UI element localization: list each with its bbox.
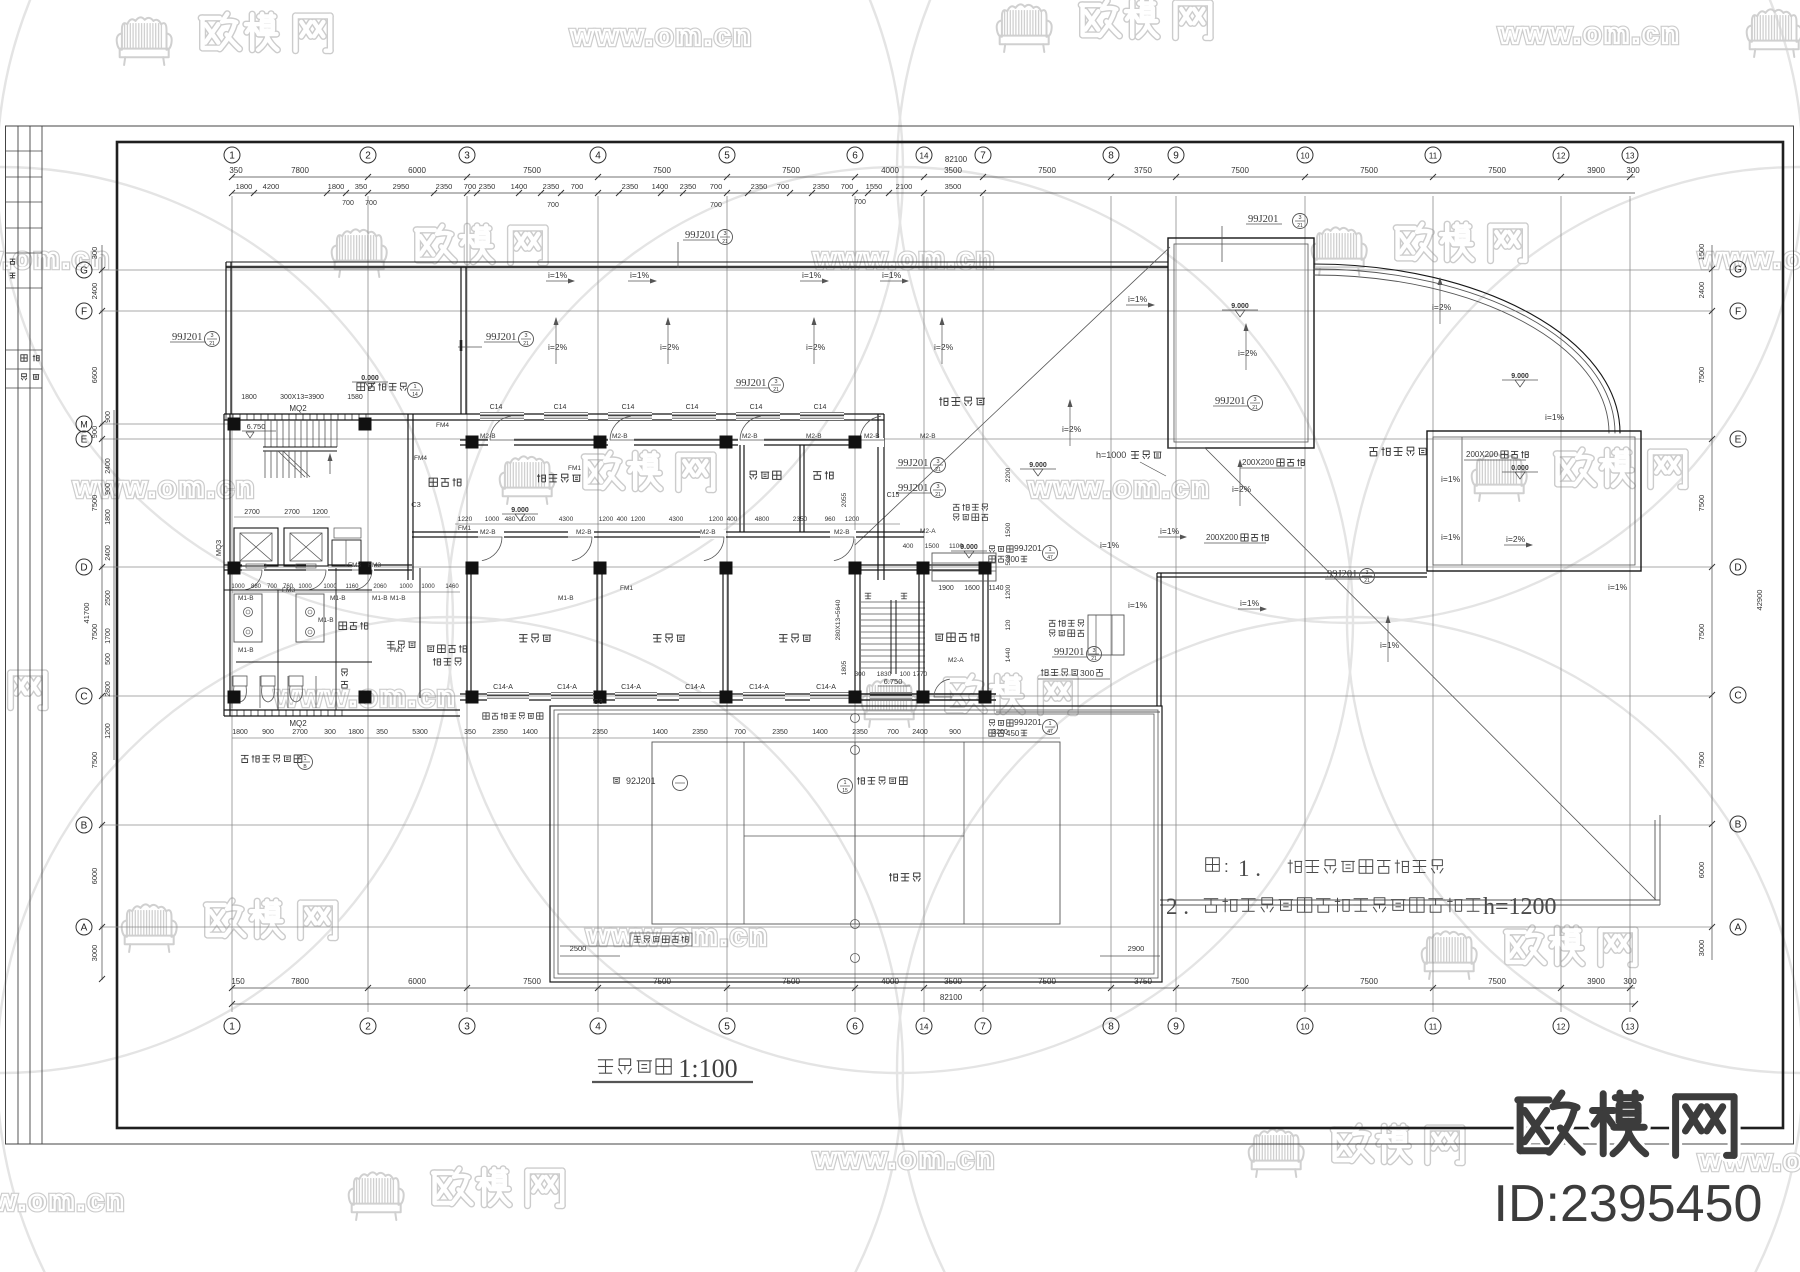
- making method labels 作法见99J201: [990, 546, 995, 549]
- svg-text:E: E: [81, 435, 88, 446]
- svg-text:7500: 7500: [523, 977, 541, 986]
- structural columns row C: [228, 691, 241, 704]
- watermark big circles: [0, 0, 903, 623]
- roof strip top edge: [226, 261, 1168, 263]
- svg-text:21: 21: [1091, 656, 1097, 662]
- brick beam label: [1041, 669, 1043, 676]
- svg-text:E: E: [1735, 435, 1742, 446]
- svg-text:21: 21: [1252, 405, 1258, 411]
- stair2 walls: [854, 565, 856, 700]
- svg-text:21: 21: [1364, 578, 1370, 584]
- svg-text:99J201: 99J201: [1215, 396, 1245, 407]
- svg-text:2350: 2350: [852, 729, 868, 736]
- svg-text:M1-B: M1-B: [318, 617, 334, 624]
- svg-text:9.000: 9.000: [1231, 303, 1249, 310]
- svg-text:1: 1: [1048, 721, 1051, 727]
- svg-text:FM1: FM1: [568, 465, 581, 472]
- svg-text:7500: 7500: [1697, 752, 1706, 769]
- svg-text:3000: 3000: [1697, 940, 1706, 957]
- svg-text:11: 11: [1429, 1023, 1438, 1032]
- svg-text:2350: 2350: [692, 729, 708, 736]
- svg-text:4200: 4200: [263, 182, 280, 191]
- svg-text:M1-B: M1-B: [372, 595, 388, 602]
- svg-text:2350: 2350: [543, 182, 560, 191]
- svg-text:280X13=5640: 280X13=5640: [835, 599, 842, 640]
- roof arc curtain: [1314, 264, 1620, 433]
- svg-text:2900: 2900: [1128, 944, 1145, 953]
- svg-text:9.000: 9.000: [511, 507, 529, 514]
- svg-text:7500: 7500: [90, 752, 99, 769]
- office partition x600: [596, 568, 598, 696]
- svg-text:300: 300: [324, 729, 336, 736]
- svg-text:99J201: 99J201: [486, 332, 516, 343]
- svg-text:12: 12: [1557, 1023, 1566, 1032]
- svg-text:i=1%: i=1%: [1380, 640, 1400, 650]
- svg-text:3: 3: [1253, 397, 1256, 403]
- toilet partitions vertical: [277, 590, 279, 710]
- svg-text:99J201: 99J201: [1014, 717, 1042, 727]
- roof right vertical to court: [1156, 573, 1158, 706]
- svg-text:i=1%: i=1%: [1128, 294, 1148, 304]
- top dimension row2: [232, 192, 1635, 194]
- svg-text:C14-A: C14-A: [557, 684, 577, 691]
- svg-text:6000: 6000: [408, 977, 426, 986]
- svg-text:1770: 1770: [913, 671, 928, 678]
- svg-text:5: 5: [724, 1022, 730, 1033]
- svg-text:i=2%: i=2%: [934, 342, 954, 352]
- svg-text:6.750: 6.750: [247, 422, 266, 431]
- svg-text:2350: 2350: [592, 729, 608, 736]
- svg-text:8: 8: [1108, 151, 1114, 162]
- svg-text:1400: 1400: [652, 729, 668, 736]
- washbasin counter 2: [296, 594, 324, 642]
- svg-text:82100: 82100: [945, 155, 968, 164]
- svg-text:21: 21: [523, 341, 529, 347]
- svg-text:6: 6: [852, 1022, 858, 1033]
- svg-text:0.000: 0.000: [361, 375, 379, 382]
- svg-text:2 .: 2 .: [1166, 894, 1189, 919]
- toilet block bottom wall: [224, 709, 460, 711]
- roof divider wall x463: [460, 267, 462, 414]
- svg-text:i=2%: i=2%: [806, 342, 826, 352]
- svg-text:300: 300: [1080, 668, 1094, 678]
- roof strip left edge: [225, 262, 227, 414]
- bottom dimension row2 82100: [232, 1003, 1635, 1005]
- svg-text:1500: 1500: [1005, 522, 1012, 537]
- roof text 上人屋面: [940, 397, 942, 406]
- svg-text:47: 47: [1047, 729, 1053, 735]
- svg-text:2350: 2350: [793, 516, 808, 523]
- top dimension row1: [232, 176, 1635, 178]
- svg-text:7500: 7500: [1697, 367, 1706, 384]
- left dimension chain inner: [113, 410, 115, 760]
- svg-text:10: 10: [1301, 152, 1310, 161]
- svg-text:42900: 42900: [1755, 590, 1764, 611]
- svg-text:i=2%: i=2%: [1062, 424, 1082, 434]
- inner thick border: [117, 142, 1783, 1128]
- structural columns row D: [228, 562, 241, 575]
- svg-text:1200: 1200: [521, 516, 536, 523]
- svg-text:9: 9: [1173, 1022, 1179, 1033]
- svg-text:M2-B: M2-B: [480, 433, 496, 440]
- svg-text:2: 2: [365, 1022, 371, 1033]
- svg-text:C14-A: C14-A: [621, 684, 641, 691]
- svg-text:520: 520: [1005, 554, 1012, 565]
- svg-text:2350: 2350: [680, 182, 697, 191]
- svg-text:13: 13: [1626, 152, 1635, 161]
- svg-text:9: 9: [1173, 151, 1179, 162]
- lower right roof boundary vertical: [1654, 820, 1656, 900]
- svg-text:1200: 1200: [631, 516, 646, 523]
- svg-text:2350: 2350: [492, 729, 508, 736]
- axis bubbles bottom: [224, 1018, 240, 1034]
- svg-text:2950: 2950: [393, 182, 410, 191]
- svg-text:C14-A: C14-A: [816, 684, 836, 691]
- svg-text:2700: 2700: [244, 509, 260, 516]
- svg-text:700: 700: [710, 202, 722, 209]
- brick beam line bottom: [996, 705, 1160, 707]
- svg-text:99J201: 99J201: [1327, 569, 1357, 580]
- svg-text:FM1: FM1: [620, 585, 633, 592]
- svg-text:3: 3: [936, 484, 939, 490]
- svg-text:B: B: [81, 821, 88, 832]
- svg-text:1805: 1805: [841, 660, 848, 675]
- axis bubbles right: [1730, 261, 1746, 277]
- svg-text:700: 700: [887, 729, 899, 736]
- svg-text:350: 350: [376, 729, 388, 736]
- E wall door gaps white: [488, 438, 514, 447]
- svg-text:1:100: 1:100: [678, 1054, 737, 1083]
- svg-text:2350: 2350: [622, 182, 639, 191]
- svg-text:MQ2: MQ2: [289, 719, 307, 728]
- svg-text:99J201: 99J201: [898, 483, 928, 494]
- svg-text:1200: 1200: [105, 723, 112, 739]
- svg-text:4: 4: [595, 1022, 601, 1033]
- title strip cell texts: [10, 258, 16, 260]
- C axis wall with windows: [460, 693, 996, 695]
- svg-text:1800: 1800: [348, 729, 364, 736]
- svg-text:300X13=3900: 300X13=3900: [280, 394, 324, 401]
- svg-text:1220: 1220: [458, 516, 473, 523]
- stair note 楼梯甲详见: [357, 383, 365, 391]
- svg-text:2: 2: [365, 151, 371, 162]
- building left outer wall: [223, 414, 225, 716]
- svg-text:C14: C14: [490, 404, 503, 411]
- svg-text:D: D: [1734, 563, 1741, 574]
- svg-text:900: 900: [949, 729, 961, 736]
- svg-text:2100: 2100: [896, 182, 913, 191]
- svg-text:0.000: 0.000: [1511, 465, 1529, 472]
- corridor south wall y532: [412, 531, 924, 533]
- svg-text:1550: 1550: [866, 182, 883, 191]
- svg-text:3900: 3900: [1587, 977, 1605, 986]
- stair note 楼梯乙详见: [857, 777, 859, 785]
- svg-text:3: 3: [464, 151, 470, 162]
- svg-text:1200: 1200: [1005, 584, 1012, 599]
- svg-text:200X200: 200X200: [1206, 533, 1239, 542]
- svg-text:11: 11: [1429, 152, 1438, 161]
- svg-text:7500: 7500: [1360, 166, 1378, 175]
- svg-text:1200: 1200: [599, 516, 614, 523]
- svg-text:4300: 4300: [669, 516, 684, 523]
- building top outer wall: [224, 413, 884, 415]
- svg-text:i=1%: i=1%: [1240, 598, 1260, 608]
- C14 windows on top wall: [480, 412, 524, 420]
- roof edge below right block to court: [1157, 572, 1427, 574]
- svg-text:400: 400: [903, 543, 914, 550]
- svg-text:200X200: 200X200: [1466, 450, 1499, 459]
- svg-text:C14-A: C14-A: [493, 684, 513, 691]
- svg-text:G: G: [1734, 265, 1742, 276]
- horizontal axis lines: [100, 269, 1712, 271]
- title strip row dividers: [6, 150, 43, 152]
- svg-text:i=2%: i=2%: [660, 342, 680, 352]
- svg-text:M1-B: M1-B: [390, 595, 406, 602]
- svg-text:1: 1: [229, 151, 235, 162]
- svg-text:100: 100: [900, 671, 911, 678]
- svg-text:880: 880: [251, 584, 262, 590]
- room label 气体灭火钢瓶室: [427, 645, 435, 647]
- svg-text:480: 480: [505, 516, 516, 523]
- leader for roof block 99J201: [1221, 226, 1223, 262]
- svg-text:2350: 2350: [479, 182, 496, 191]
- stair1 landing rails: [263, 446, 337, 448]
- svg-text:450: 450: [1006, 729, 1020, 738]
- washbasin counter 1: [234, 594, 262, 642]
- outer thin border: [6, 126, 1794, 1144]
- svg-text:i=2%: i=2%: [1432, 302, 1452, 312]
- svg-text:2350: 2350: [436, 182, 453, 191]
- svg-text:3500: 3500: [944, 166, 962, 175]
- net protection note 加设钢丝保护网: [634, 935, 641, 937]
- D axis wall segments: [224, 564, 412, 566]
- svg-text:2400: 2400: [1697, 282, 1706, 299]
- svg-text:300: 300: [1626, 166, 1640, 175]
- svg-text:99J201: 99J201: [736, 378, 766, 389]
- svg-text:i=2%: i=2%: [1238, 348, 1258, 358]
- svg-text:h=1200: h=1200: [1483, 894, 1557, 920]
- svg-text:i=1%: i=1%: [1441, 532, 1461, 542]
- svg-text:47: 47: [1047, 555, 1053, 561]
- svg-text:7: 7: [980, 151, 986, 162]
- svg-text:7500: 7500: [90, 624, 99, 641]
- roof top-right block: [1168, 238, 1314, 448]
- roof text 不上人屋面: [1369, 447, 1378, 449]
- C14-A windows bottom: [487, 692, 529, 701]
- room label 电梯机房: [935, 633, 944, 635]
- court dim 2500: [560, 955, 620, 957]
- svg-text:300: 300: [90, 247, 99, 260]
- svg-text:1800: 1800: [105, 509, 112, 525]
- svg-text:1: 1: [303, 756, 306, 762]
- svg-text:F: F: [81, 307, 87, 318]
- svg-text:6: 6: [852, 151, 858, 162]
- svg-text:FM4: FM4: [436, 422, 449, 429]
- svg-text:3: 3: [210, 333, 213, 339]
- svg-text:7500: 7500: [1488, 977, 1506, 986]
- svg-text:2060: 2060: [373, 584, 387, 590]
- svg-text:21: 21: [773, 387, 779, 393]
- svg-text:3: 3: [774, 379, 777, 385]
- svg-text:3200: 3200: [992, 729, 1008, 736]
- svg-text:1440: 1440: [1005, 647, 1012, 662]
- svg-text:M2-B: M2-B: [480, 529, 496, 536]
- elevator door slots: [246, 564, 266, 568]
- roof diagonal D2: [1205, 448, 1656, 900]
- svg-text:2200: 2200: [1005, 467, 1012, 482]
- svg-text:M: M: [80, 420, 88, 430]
- tennis court inner court: [652, 742, 1060, 924]
- svg-text:6000: 6000: [1697, 862, 1706, 879]
- room label 配电间: [429, 478, 437, 486]
- svg-text:1400: 1400: [812, 729, 828, 736]
- svg-text:150: 150: [231, 977, 245, 986]
- svg-text:900: 900: [90, 426, 99, 439]
- svg-text:1200: 1200: [709, 516, 724, 523]
- svg-text:1830: 1830: [877, 671, 892, 678]
- bottom wall at stair2/machine room: [855, 693, 996, 695]
- svg-text:M2-B: M2-B: [920, 433, 936, 440]
- svg-text:FM4: FM4: [414, 455, 427, 462]
- svg-text:1160: 1160: [346, 584, 360, 590]
- svg-text:9.000: 9.000: [1029, 462, 1047, 469]
- svg-text:4800: 4800: [755, 516, 770, 523]
- svg-text:M2-B: M2-B: [834, 529, 850, 536]
- upper partition x802: [799, 445, 801, 532]
- svg-text:B: B: [1735, 820, 1742, 831]
- svg-text:3: 3: [524, 333, 527, 339]
- axis bubble M left: [76, 416, 92, 432]
- svg-text:M2-B: M2-B: [864, 433, 880, 440]
- structural columns row M: [228, 418, 241, 431]
- svg-text:i=1%: i=1%: [1160, 526, 1180, 536]
- E wall doors: [490, 416, 511, 440]
- svg-text:4: 4: [595, 151, 601, 162]
- svg-text:C: C: [80, 692, 87, 703]
- machine room door: [934, 679, 950, 697]
- svg-text:6.750: 6.750: [884, 677, 903, 686]
- svg-text:M2-B: M2-B: [576, 529, 592, 536]
- svg-text:M2-A: M2-A: [920, 528, 936, 535]
- svg-text:MQ3: MQ3: [214, 540, 223, 556]
- svg-text:700: 700: [777, 182, 790, 191]
- svg-text:300: 300: [855, 671, 866, 678]
- svg-text:700: 700: [342, 200, 354, 207]
- room labels 办公室 row: [519, 634, 528, 636]
- room label 计算机房: [538, 474, 540, 482]
- elevator shaft 1: [234, 528, 278, 566]
- svg-text:900: 900: [262, 729, 274, 736]
- partition x470 lower: [466, 568, 468, 698]
- svg-text:1200: 1200: [845, 516, 860, 523]
- svg-text:5: 5: [724, 151, 730, 162]
- svg-text:700: 700: [365, 200, 377, 207]
- svg-text:MQ2: MQ2: [289, 404, 307, 413]
- svg-text:C3: C3: [411, 500, 421, 509]
- outer net note 外扩钢丝网保护: [483, 713, 489, 719]
- svg-text:C14-A: C14-A: [685, 684, 705, 691]
- svg-text:120: 120: [1005, 619, 1012, 630]
- svg-text:8: 8: [1108, 1022, 1114, 1033]
- title strip columns: [17, 126, 19, 1144]
- left dimension chain outer: [101, 245, 103, 980]
- svg-text:C: C: [1734, 691, 1741, 702]
- svg-text:350: 350: [464, 729, 476, 736]
- svg-text:3900: 3900: [1587, 166, 1605, 175]
- svg-text:i=1%: i=1%: [1608, 582, 1628, 592]
- svg-text:G: G: [80, 266, 88, 277]
- svg-text:900: 900: [105, 483, 112, 495]
- svg-text:2055: 2055: [841, 492, 848, 507]
- elevator shaft 2: [284, 528, 328, 566]
- svg-text:21: 21: [209, 341, 215, 347]
- svg-text:99J201: 99J201: [1248, 214, 1278, 225]
- lobby small rooms near elevators: [332, 540, 361, 566]
- office partition x726: [722, 568, 724, 696]
- svg-text:FM3: FM3: [282, 587, 295, 594]
- svg-text:2400: 2400: [105, 545, 112, 561]
- svg-text:A: A: [81, 923, 88, 934]
- svg-text:1: 1: [229, 1022, 235, 1033]
- svg-text:700: 700: [571, 182, 584, 191]
- svg-text:1000: 1000: [231, 584, 245, 590]
- watermark www.om.cn marks: [570, 20, 754, 52]
- axis M short line: [100, 423, 240, 425]
- svg-text:3: 3: [1365, 570, 1368, 576]
- svg-text:700: 700: [854, 199, 866, 206]
- svg-text:21: 21: [722, 239, 728, 245]
- vertical axis lines: [231, 196, 233, 1012]
- svg-text:13: 13: [1626, 1023, 1635, 1032]
- svg-text:1400: 1400: [511, 182, 528, 191]
- court net post circles: [851, 714, 860, 723]
- right mid block 200x200: [1427, 431, 1641, 571]
- svg-text:i=1%: i=1%: [1441, 474, 1461, 484]
- stair1 block right wall: [407, 414, 409, 580]
- svg-text:M1-B: M1-B: [238, 647, 254, 654]
- svg-text:i=2%: i=2%: [548, 342, 568, 352]
- svg-text:1100: 1100: [949, 543, 963, 550]
- svg-text:300: 300: [1623, 977, 1637, 986]
- svg-text:C15: C15: [887, 492, 900, 499]
- svg-text:14: 14: [920, 152, 929, 161]
- court dim 2900: [1100, 955, 1160, 957]
- MQ2 curtain wall hatch top: [225, 414, 227, 420]
- svg-text:1000: 1000: [323, 584, 337, 590]
- svg-text:12: 12: [1557, 152, 1566, 161]
- svg-text:700: 700: [464, 182, 477, 191]
- svg-text:3: 3: [723, 231, 726, 237]
- svg-text:FM1: FM1: [458, 525, 471, 532]
- bottom dimension row1: [232, 987, 1635, 989]
- stair1 treads lower flight: [264, 451, 266, 478]
- svg-text:M1-B: M1-B: [558, 595, 574, 602]
- svg-text:3: 3: [936, 459, 939, 465]
- svg-text:3: 3: [1298, 215, 1301, 221]
- svg-text:1800: 1800: [236, 182, 253, 191]
- svg-text:i=1%: i=1%: [548, 270, 568, 280]
- room label 弱电室: [750, 471, 756, 475]
- svg-text:400: 400: [727, 516, 738, 523]
- E axis corridor wall: [460, 439, 884, 441]
- svg-text:1200: 1200: [312, 509, 328, 516]
- toilet block interior wall y662: [236, 661, 372, 663]
- svg-text:900: 900: [105, 411, 112, 423]
- MQ2 curtain wall hatch bottom: [229, 710, 231, 716]
- right dimension chain: [1711, 245, 1713, 960]
- svg-text:99J201: 99J201: [898, 458, 928, 469]
- svg-text:1: 1: [843, 780, 846, 786]
